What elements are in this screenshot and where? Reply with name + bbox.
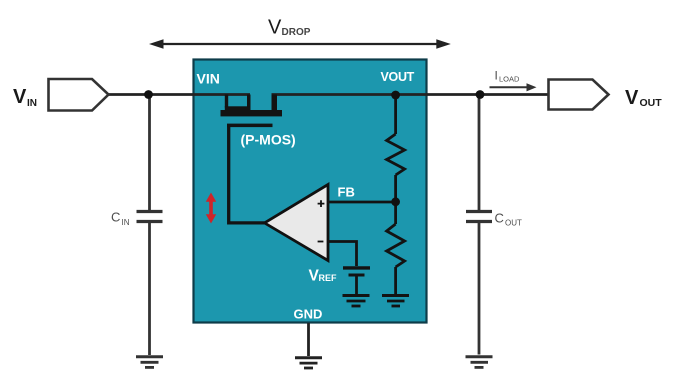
svg-text:C: C — [111, 210, 120, 225]
svg-text:C: C — [495, 211, 504, 226]
svg-text:V: V — [625, 87, 639, 109]
svg-text:(P-MOS): (P-MOS) — [241, 132, 296, 148]
svg-text:VOUT: VOUT — [381, 70, 415, 84]
svg-text:LOAD: LOAD — [499, 75, 520, 84]
svg-text:FB: FB — [338, 185, 355, 200]
svg-text:GND: GND — [294, 307, 323, 322]
svg-text:REF: REF — [319, 273, 338, 283]
svg-text:IN: IN — [122, 218, 130, 227]
svg-text:OUT: OUT — [505, 219, 522, 228]
svg-text:V: V — [268, 17, 282, 39]
svg-text:IN: IN — [27, 98, 37, 109]
svg-text:OUT: OUT — [640, 97, 663, 109]
svg-text:I: I — [495, 69, 498, 83]
svg-text:VIN: VIN — [197, 71, 220, 87]
svg-text:V: V — [13, 86, 27, 108]
svg-text:DROP: DROP — [282, 27, 311, 38]
